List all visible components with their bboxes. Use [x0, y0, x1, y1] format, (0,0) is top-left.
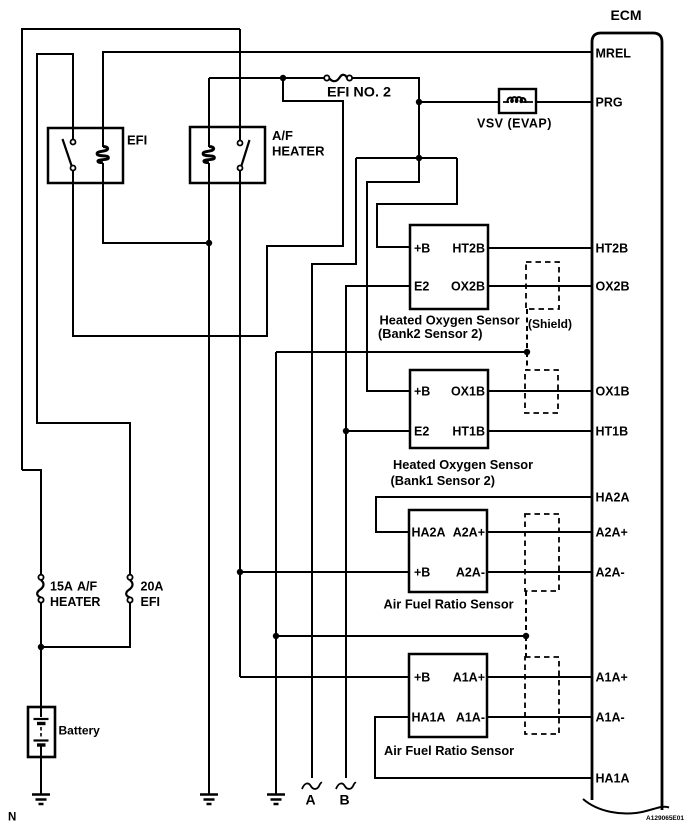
wire E2 net to connector B: [346, 286, 410, 778]
wire +B to OX1B sensor: [367, 158, 419, 391]
node +B A2A junction: [237, 569, 243, 575]
fuse 20A EFI: [126, 575, 132, 603]
node fuse junction: [280, 75, 286, 81]
fuse 15A A/F HEATER: [37, 575, 43, 603]
wire MREL ECM to EFI relay coil: [103, 52, 592, 147]
svg-text:A1A-: A1A-: [456, 710, 485, 724]
svg-text:HA2A: HA2A: [596, 490, 630, 504]
shield box OX1B: [525, 370, 558, 413]
node PRG junction: [416, 99, 422, 105]
wire step to 15A fuse: [22, 470, 41, 575]
svg-text:HEATER: HEATER: [50, 595, 100, 609]
wire +B to A1A sensor: [240, 676, 410, 678]
svg-text:(Bank1 Sensor 2): (Bank1 Sensor 2): [391, 473, 496, 488]
svg-text:HT2B: HT2B: [452, 241, 485, 255]
wire A2A- to ECM: [488, 571, 592, 573]
node shield lower junction: [523, 633, 529, 639]
shield dashed stub OX2B: [526, 309, 528, 352]
node relay coil junction: [206, 240, 212, 246]
svg-text:E2: E2: [414, 424, 429, 438]
svg-text:A2A-: A2A-: [456, 565, 485, 579]
svg-text:(Shield): (Shield): [528, 317, 572, 331]
svg-text:Heated Oxygen Sensor: Heated Oxygen Sensor: [393, 457, 533, 472]
wire +B to HT2B sensor: [377, 158, 457, 247]
wire HT2B to ECM: [488, 247, 592, 249]
svg-text:A129065E01: A129065E01: [646, 815, 684, 822]
wire A/F relay switch feed x240: [239, 29, 241, 140]
svg-text:EFI: EFI: [141, 595, 160, 609]
svg-text:A2A+: A2A+: [596, 525, 628, 539]
svg-text:Battery: Battery: [59, 724, 101, 738]
node shield left junction: [273, 633, 279, 639]
svg-text:HA1A: HA1A: [596, 771, 630, 785]
wire A2A+ to ECM: [488, 531, 592, 533]
svg-text:HT1B: HT1B: [452, 424, 485, 438]
VSV (EVAP) solenoid valve U-VSV: [499, 89, 536, 113]
wire A/F relay switch output down: [239, 171, 241, 677]
relay EFI box: [48, 128, 123, 183]
node battery fuse junction: [38, 644, 44, 650]
svg-text:+B: +B: [414, 565, 430, 579]
wire shield bus vertical to ground: [275, 352, 277, 794]
wire EFI relay switch output to fuse: [73, 78, 343, 336]
svg-text:Air Fuel Ratio Sensor: Air Fuel Ratio Sensor: [384, 743, 514, 758]
wire battery to ground: [40, 757, 42, 794]
svg-text:OX2B: OX2B: [451, 279, 485, 293]
shield dashed stub OX1B: [526, 352, 528, 370]
connector A symbol: [302, 783, 322, 789]
wire HT1B to ECM: [488, 430, 592, 432]
svg-text:PRG: PRG: [596, 95, 623, 109]
wire fuse line left: [209, 77, 324, 79]
fuse EFI NO.2: [324, 75, 352, 81]
svg-text:+B: +B: [414, 384, 430, 398]
svg-text:HT2B: HT2B: [596, 241, 629, 255]
svg-text:HA2A: HA2A: [412, 525, 446, 539]
shield dashed stub A1A: [525, 636, 527, 657]
wire E2 branch to Bank1 sensor: [346, 430, 410, 432]
relay EFI switch: [63, 139, 76, 171]
svg-text:OX1B: OX1B: [451, 384, 485, 398]
shield dashed stub A2A: [525, 591, 527, 636]
wire A/F relay coil top from fuse line: [208, 78, 210, 147]
wire OX1B to ECM: [488, 390, 592, 392]
svg-text:A1A+: A1A+: [453, 670, 485, 684]
ECM box: [592, 33, 662, 810]
node shield upper junction: [524, 349, 530, 355]
wire battery+ 15A rail top: [22, 28, 240, 30]
ground relay coils: [200, 795, 218, 805]
shield box A1A: [525, 657, 559, 734]
svg-text:OX2B: OX2B: [596, 279, 630, 293]
svg-text:HA1A: HA1A: [412, 710, 446, 724]
wire +B to connector A: [312, 158, 356, 778]
wire A1A+ to ECM: [488, 676, 592, 678]
svg-text:HT1B: HT1B: [596, 424, 629, 438]
wire PRG to VSV: [419, 101, 499, 103]
wire shield bus upper: [276, 351, 527, 353]
wire 20A fuse top rail x37: [37, 54, 130, 575]
sensor box Heated Oxygen Sensor Bank1: [410, 370, 488, 448]
svg-text:+B: +B: [414, 241, 430, 255]
svg-text:A: A: [305, 792, 315, 808]
wire VSV to ECM PRG: [536, 101, 592, 103]
battery: [28, 707, 55, 757]
wire shield bus lower: [276, 635, 526, 637]
relay A/F HEATER switch: [238, 140, 250, 171]
wire +B header y158: [356, 157, 457, 159]
svg-text:HEATER: HEATER: [272, 144, 325, 159]
relay A/F HEATER coil: [203, 147, 214, 163]
svg-text:A1A-: A1A-: [596, 710, 625, 724]
svg-text:A2A-: A2A-: [596, 565, 625, 579]
svg-text:VSV (EVAP): VSV (EVAP): [477, 117, 552, 131]
svg-text:A2A+: A2A+: [453, 525, 485, 539]
wire left rail x22: [21, 28, 23, 470]
relay EFI coil: [97, 147, 108, 163]
wire junction to 20A fuse bottom: [41, 602, 130, 647]
sensor box Air Fuel Ratio Sensor A1A: [409, 654, 487, 737]
svg-text:15A A/F: 15A A/F: [50, 580, 97, 594]
wire fuse line right to PRG corner: [352, 78, 419, 102]
sensor box Heated Oxygen Sensor Bank2: [410, 225, 488, 309]
connector B symbol: [336, 783, 356, 789]
relay A/F HEATER box: [190, 127, 265, 183]
svg-text:EFI NO. 2: EFI NO. 2: [327, 84, 391, 100]
shield box A2A: [525, 514, 559, 591]
wire OX2B to ECM: [488, 285, 592, 287]
svg-text:A1A+: A1A+: [596, 670, 628, 684]
svg-text:ECM: ECM: [610, 7, 641, 23]
svg-text:OX1B: OX1B: [596, 384, 630, 398]
node E2 junction: [343, 428, 349, 434]
svg-text:E2: E2: [414, 279, 429, 293]
node +B header junction: [416, 155, 422, 161]
svg-text:N: N: [8, 812, 16, 824]
svg-text:A/F: A/F: [272, 128, 293, 143]
wire HA2A to ECM: [376, 497, 592, 532]
sensor box Air Fuel Ratio Sensor A2A: [409, 510, 487, 592]
svg-text:20A: 20A: [141, 580, 164, 594]
wire A/F relay coil to ground: [208, 163, 210, 794]
ECM bottom wave: [583, 799, 669, 813]
svg-text:MREL: MREL: [596, 46, 632, 60]
ground battery: [32, 795, 50, 805]
svg-text:+B: +B: [414, 670, 430, 684]
wire +B to A2A sensor: [240, 571, 410, 573]
wire EFI relay coil to junction: [103, 163, 209, 243]
ground shield: [267, 795, 285, 805]
svg-text:EFI: EFI: [127, 133, 147, 148]
wire HA1A to ECM: [375, 717, 592, 778]
svg-text:B: B: [339, 792, 349, 808]
svg-text:(Bank2 Sensor 2): (Bank2 Sensor 2): [378, 326, 483, 341]
wire A1A- to ECM: [488, 716, 592, 718]
svg-text:Air Fuel Ratio Sensor: Air Fuel Ratio Sensor: [384, 597, 514, 612]
wire +B distribution vertical: [418, 102, 420, 158]
shield box OX2B: [526, 262, 559, 309]
wire 15A fuse bottom to junction: [40, 602, 42, 707]
